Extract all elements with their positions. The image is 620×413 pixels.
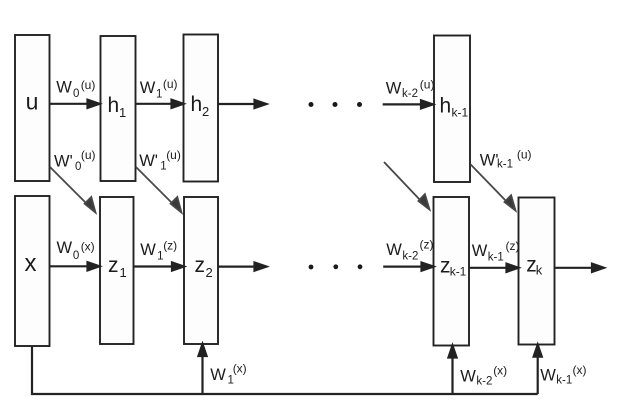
label W1(x) [210,361,247,386]
svg-text:k: k [536,262,543,277]
label W'1(u) [139,148,181,173]
wire u to h1 arrow [50,100,100,108]
svg-text:1: 1 [228,375,234,387]
label W0(x) [57,239,95,262]
wire z2 to dots arrow [218,263,267,271]
diagonal arrow into z_{k-1} (unlabeled) [384,162,430,210]
svg-text:W: W [140,241,156,259]
node z_{k-1} (box) [434,197,470,346]
svg-text:(x): (x) [573,363,587,377]
label Wk-1(x) [540,363,586,387]
svg-text:0: 0 [73,250,79,262]
node h2 (box) [184,35,219,182]
svg-text:2: 2 [206,265,213,280]
svg-text:W: W [472,242,488,260]
svg-text:(z): (z) [163,239,177,253]
wire dots to h_{k-1} arrow [383,100,433,108]
svg-text:W': W' [480,152,499,170]
svg-text:x: x [25,250,37,277]
wire h2 to dots arrow [218,100,267,108]
svg-text:W: W [210,366,226,384]
svg-text:(x): (x) [233,361,247,375]
dots top ellipsis [309,102,363,107]
svg-text:W: W [460,368,476,386]
label Wk-1(z) [472,239,520,264]
svg-text:(u): (u) [166,148,181,162]
svg-text:h: h [440,95,452,118]
svg-text:z: z [108,254,119,277]
svg-text:k-1: k-1 [497,159,513,171]
svg-text:k-1: k-1 [450,264,467,278]
svg-text:k-2: k-2 [402,88,418,100]
svg-text:1: 1 [120,265,127,280]
svg-text:h: h [191,93,203,116]
feedback arrow into z_k [534,345,542,394]
label W1(z) [140,239,177,263]
svg-text:W': W' [139,152,158,170]
svg-text:W: W [386,80,402,98]
label W'k-1(u) [480,148,532,171]
svg-text:k-1: k-1 [556,375,572,387]
svg-text:(z): (z) [506,239,520,253]
node z1 (box) [100,197,134,344]
svg-text:0: 0 [73,88,79,100]
svg-text:W': W' [54,153,73,171]
svg-text:h: h [108,94,120,117]
svg-text:W: W [56,79,72,97]
diagonal arrow W'0 from u to z1 [50,167,96,213]
svg-text:W: W [140,79,156,97]
node z_k (box) [519,198,555,345]
node z2 (box) [184,197,218,344]
svg-text:W: W [57,239,73,257]
wire z_{k-1} to z_k arrow [469,264,519,272]
svg-text:k-2: k-2 [476,376,492,388]
node x (box) [15,196,50,346]
wire z_k output arrow [555,264,605,272]
feedback arrow into z_{k-1} [448,346,456,395]
dots bottom ellipsis [309,264,363,269]
diagonal arrow W'1 from h1 to z2 [136,167,182,213]
node h1 (box) [101,36,136,181]
svg-text:(z): (z) [420,238,434,252]
svg-text:u: u [26,89,39,115]
node u (box) [15,35,50,181]
label Wk-2(z) [386,238,433,263]
label W1(u) [140,77,178,101]
feedback arrow into z2 [198,344,206,394]
wire x to z1 arrow [50,262,100,270]
svg-text:1: 1 [119,105,126,120]
svg-text:2: 2 [202,104,209,119]
wire dots to z_{k-1} arrow [383,263,433,271]
diagonal arrow W'k-1 from h_{k-1} to z_k [471,165,516,211]
svg-text:k-2: k-2 [402,250,418,262]
svg-text:1: 1 [156,89,162,101]
node h_{k-1} (box) [434,36,470,183]
svg-text:(x): (x) [81,240,95,254]
wire z1 to z2 arrow [134,262,185,270]
svg-text:1: 1 [160,160,166,172]
svg-text:(u): (u) [420,78,435,92]
svg-text:W: W [386,241,402,259]
svg-text:k-1: k-1 [488,252,504,264]
feedback wire from x bottom [32,346,538,394]
svg-text:(u): (u) [81,148,96,162]
wire h1 to h2 arrow [136,100,184,108]
label Wk-2(u) [386,78,435,101]
svg-text:(u): (u) [163,77,178,91]
svg-text:z: z [195,254,206,277]
svg-text:k-1: k-1 [452,106,469,120]
label W0(u) [56,78,95,100]
svg-text:0: 0 [75,161,81,173]
svg-text:W: W [540,367,556,385]
svg-text:(x): (x) [493,364,507,378]
svg-text:(u): (u) [517,148,532,162]
label Wk-2(x) [460,364,507,388]
label W'0(u) [54,148,96,173]
svg-text:(u): (u) [81,78,96,92]
